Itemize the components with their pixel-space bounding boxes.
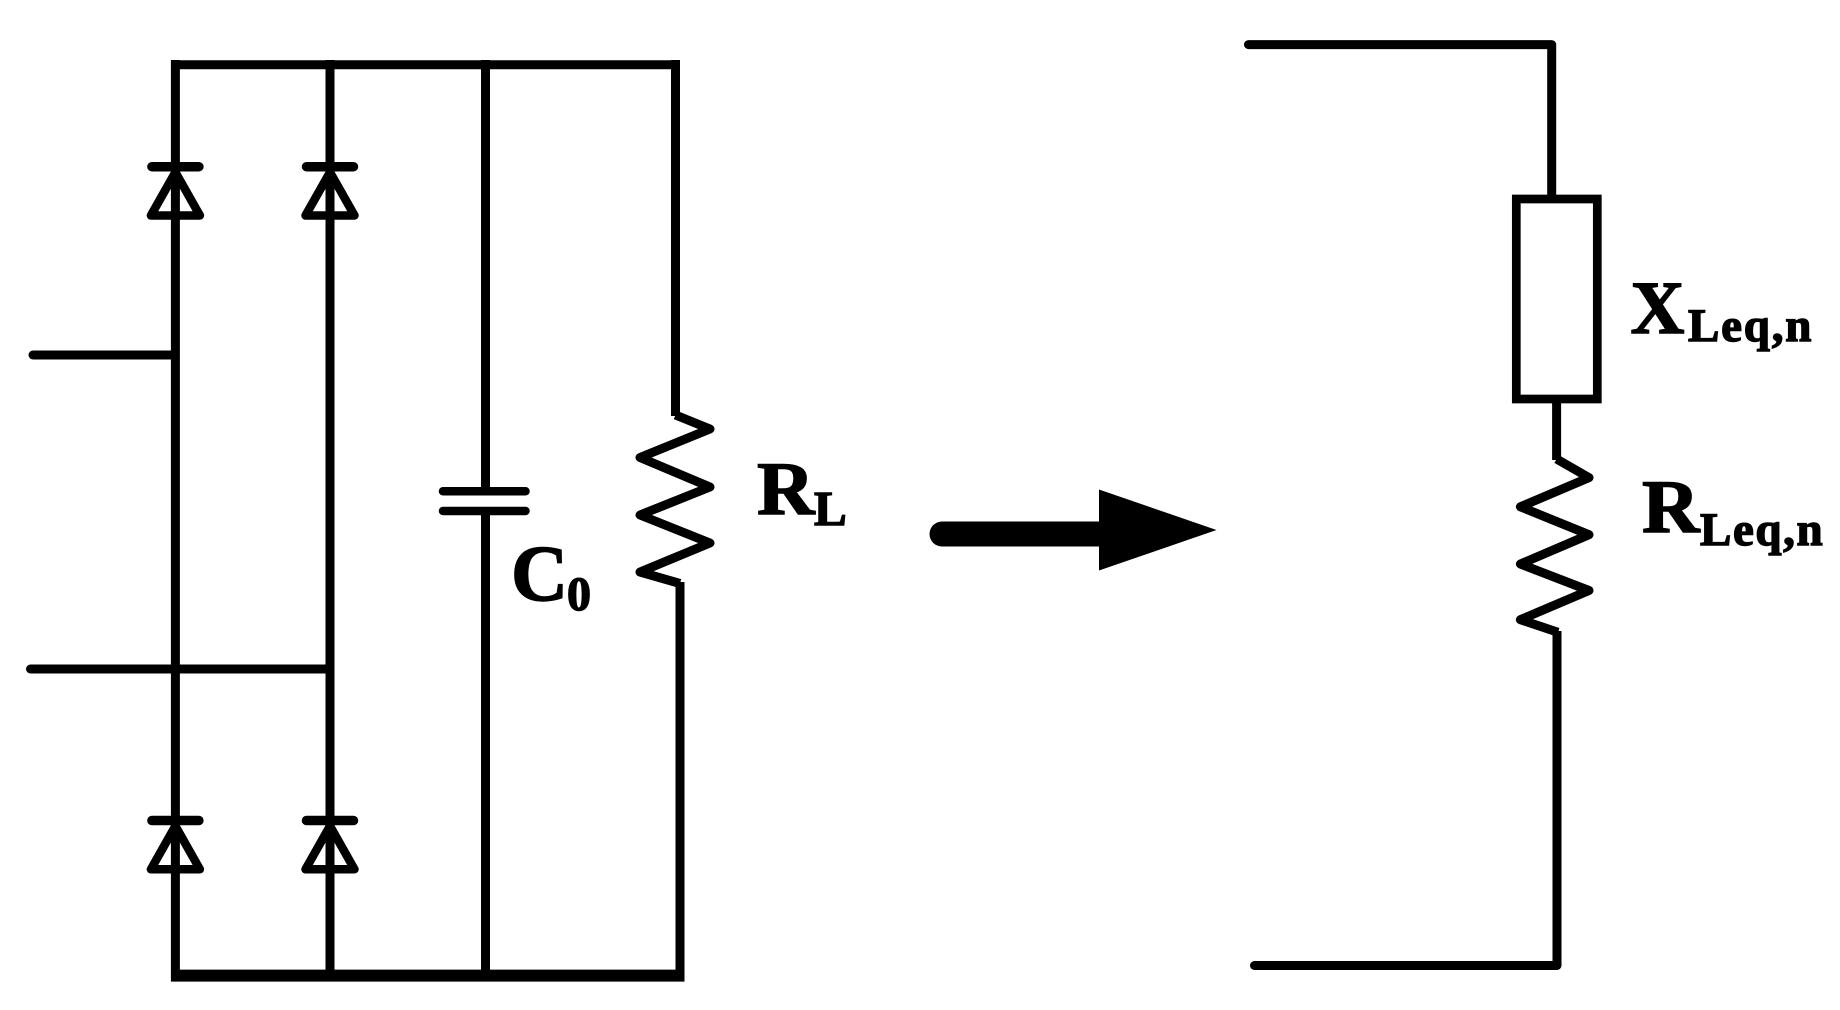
wire top bus (left circuit): [171, 60, 680, 69]
wire AC input 2: [31, 665, 331, 674]
diode D3 (bottom left of bridge): [151, 821, 200, 870]
wire vertical to reactance box: [1547, 45, 1556, 199]
wire between box and resistor: [1552, 399, 1561, 460]
wire bottom lead (right circuit): [1553, 631, 1562, 966]
svg-text:L: L: [814, 481, 847, 536]
arrow (transformation) shaft: [942, 522, 1102, 547]
resistor R_Leq,n zigzag: [1520, 459, 1589, 632]
arrow head: [1099, 490, 1217, 571]
svg-text:X: X: [1631, 267, 1685, 350]
wire RL branch lower: [676, 582, 685, 981]
svg-text:C: C: [511, 531, 568, 618]
capacitor C0 top plate: [443, 487, 526, 496]
wire RL branch upper: [671, 60, 680, 416]
diode D1 (top left of bridge): [151, 167, 200, 216]
wire capacitor branch lower: [481, 511, 490, 981]
resistor RL zigzag: [640, 415, 710, 584]
wire bottom bus (right circuit): [1255, 961, 1558, 970]
diode D4 (bottom right of bridge): [306, 821, 355, 870]
wire AC input 1: [33, 351, 175, 360]
svg-text:R: R: [757, 448, 815, 531]
svg-text:0: 0: [567, 568, 591, 621]
capacitor C0 bottom plate: [443, 507, 526, 516]
wire top bus (right circuit): [1249, 40, 1552, 49]
wire capacitor branch upper: [481, 60, 490, 492]
wire bottom bus (left circuit): [171, 970, 685, 982]
wire bridge leg 2 vertical: [326, 60, 335, 981]
svg-text:R: R: [1642, 466, 1700, 549]
wire bridge leg 1 vertical: [171, 60, 180, 981]
svg-text:Leq,n: Leq,n: [1688, 300, 1813, 352]
svg-text:Leq,n: Leq,n: [1700, 504, 1824, 556]
diode D2 (top right of bridge): [306, 167, 355, 216]
reactance box X_Leq,n: [1516, 199, 1597, 399]
